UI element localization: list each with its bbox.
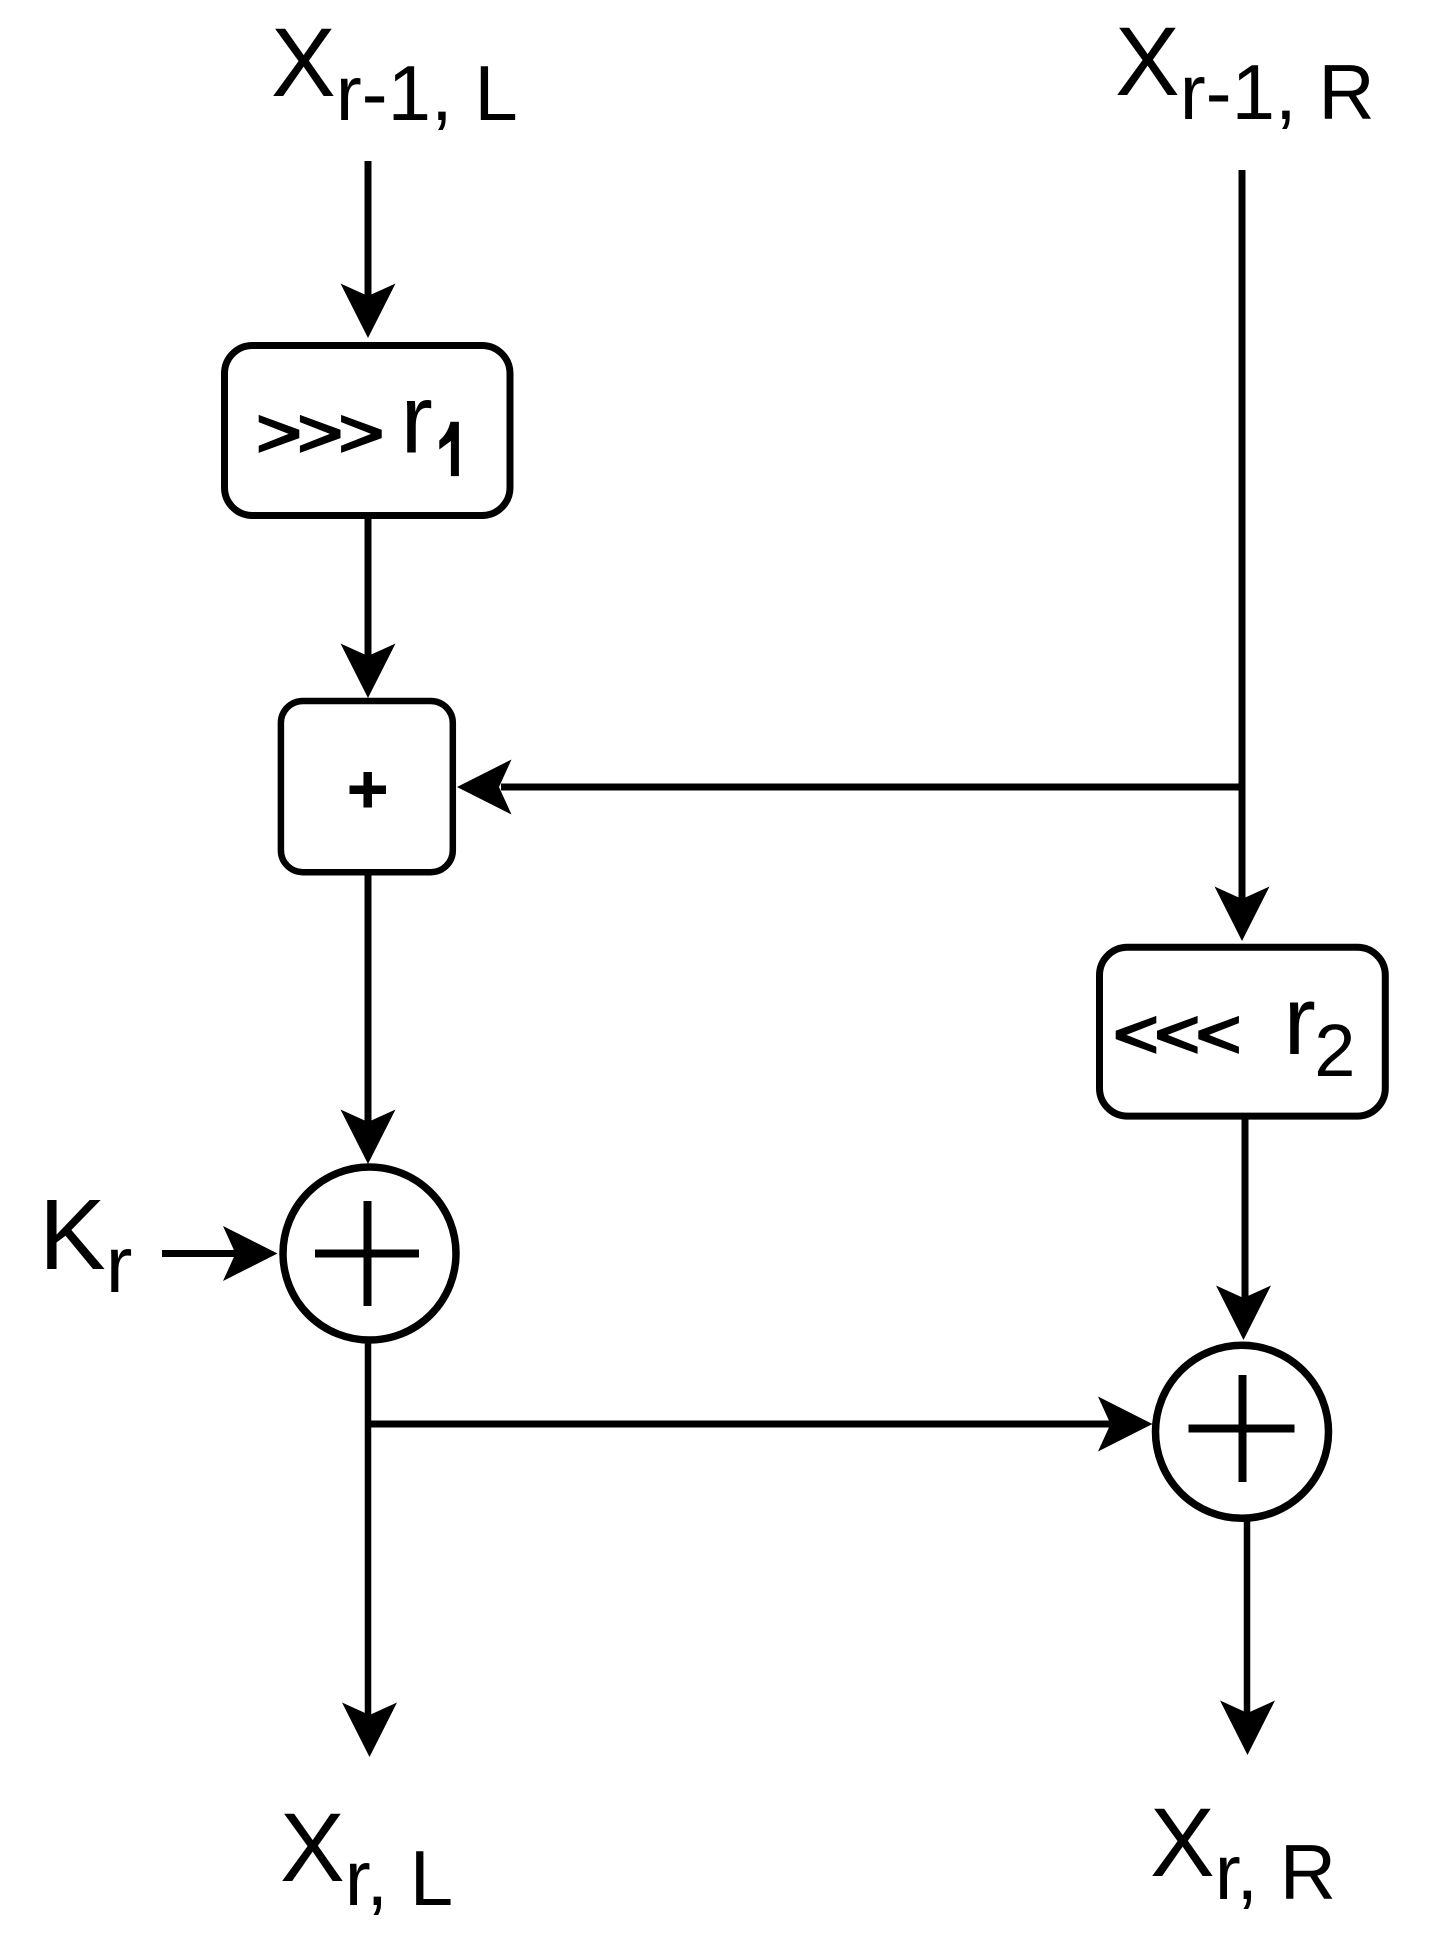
wire: left XOR output down to X_{r,L} [342, 1341, 397, 1757]
wire: branch from X_{r-1,R} into adder (arrow pointing left) [457, 760, 1242, 815]
wire: X_{r-1,R} vertical line down [1239, 170, 1246, 900]
wire: arrow from R2 into right XOR [1216, 1119, 1271, 1340]
arrowhead into rotate box R2 [1215, 887, 1270, 942]
plus sign in adder [350, 772, 387, 808]
plus cross in right XOR [1189, 1375, 1295, 1482]
wire: branch junction to right XOR (arrow pointing right) [365, 1397, 1153, 1452]
plus cross in left XOR [315, 1201, 419, 1306]
label >>> chevrons in R1 [259, 415, 382, 453]
svg-text:Xr, L: Xr, L [280, 1793, 453, 1922]
wire: arrow from adder into left XOR [341, 872, 396, 1164]
wire: right XOR output down to X_{r,R} [1220, 1519, 1275, 1755]
svg-text:2: 2 [1314, 1009, 1355, 1092]
adder box (modular addition) [281, 701, 453, 872]
rotate-right box R1 (>>> r1) [225, 346, 511, 516]
svg-text:Kr: Kr [39, 1179, 132, 1309]
wire: arrow from X_{r-1,L} into rotate box R1 [341, 161, 396, 338]
wire: arrow from K_r into left XOR [162, 1226, 278, 1281]
svg-text:Xr-1, R: Xr-1, R [1115, 7, 1375, 136]
svg-text:Xr-1, L: Xr-1, L [271, 8, 518, 137]
wire: arrow from R1 into adder [341, 516, 396, 698]
svg-text:r: r [1284, 966, 1316, 1075]
svg-text:Xr, R: Xr, R [1150, 1788, 1336, 1916]
right XOR circle [1156, 1345, 1329, 1518]
rotate-left box R2 (<<< r2) [1100, 947, 1386, 1116]
label <<< chevrons in R2 [1116, 1016, 1239, 1054]
digit 1 subscript (helvetica-style, no foot) [439, 422, 459, 476]
svg-text:r: r [401, 365, 433, 474]
left XOR circle [283, 1167, 456, 1340]
